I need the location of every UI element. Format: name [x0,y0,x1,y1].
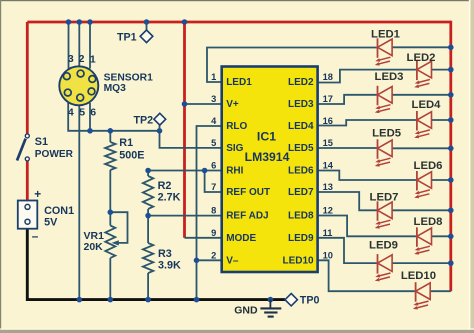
svg-text:14: 14 [323,161,334,171]
svg-text:SENSOR1: SENSOR1 [104,72,153,83]
wire pin14 to LED6 [318,171,417,181]
wire LED2 anode to +5V rail [432,69,451,71]
IC1 label [245,130,290,165]
svg-text:LED4: LED4 [412,99,442,111]
svg-text:15: 15 [323,138,333,148]
svg-text:5: 5 [211,138,216,148]
wire +5V top rail [27,21,451,24]
node R2 top on RHI line [145,168,151,174]
svg-text:LED3: LED3 [288,99,314,110]
svg-text:TP1: TP1 [117,31,137,43]
svg-text:6: 6 [90,106,96,118]
test point TP1 [117,22,153,43]
sensor SENSOR1 MQ3 [59,66,153,105]
svg-text:+: + [34,187,41,201]
LED LED1 [371,28,400,65]
svg-text:5: 5 [79,106,85,118]
wire pin17 to LED3 [318,95,378,104]
svg-text:LED1: LED1 [226,77,252,88]
pin 6 RHI [211,161,244,177]
wire pin18 to LED2 [318,70,417,83]
LED LED10 [401,270,436,310]
pin 1 LED1 [211,72,252,88]
wire LED7 anode to +5V rail [392,209,451,211]
svg-text:500E: 500E [119,150,144,162]
svg-text:LED8: LED8 [288,211,314,222]
svg-text:REF ADJ: REF ADJ [226,211,268,222]
wire sensor pin1 to +5V [89,22,91,69]
svg-text:LED9: LED9 [369,239,398,251]
node pin3 V+ [182,101,188,107]
wire MODE pin9 to V+ [185,237,222,239]
node LED anode on +5V rail [448,177,454,183]
svg-text:R2: R2 [158,180,172,192]
svg-text:MQ3: MQ3 [104,83,127,94]
resistor R1 500E [105,131,144,212]
svg-text:MODE: MODE [226,233,256,244]
node LED anode on +5V rail [448,45,454,51]
svg-text:LED2: LED2 [288,77,314,88]
svg-text:16: 16 [323,116,333,126]
wire pin10 to LED10 [318,260,416,291]
wire LED1 anode to +5V rail [392,46,451,48]
wire RLO pin4 to ground [197,126,222,300]
wire pin16 to LED4 [318,120,417,126]
wire V- pin2 to ground line [197,259,222,261]
wire pin11 to LED9 [318,238,378,263]
pin 14 LED6 [288,161,334,177]
svg-text:LM3914: LM3914 [245,150,290,164]
wire pin1 to LED1 [207,48,378,83]
svg-text:11: 11 [323,228,333,238]
wire REF OUT pin7 to RHI [205,171,222,193]
svg-text:TP0: TP0 [300,295,320,307]
resistor R3 3.9K [143,216,181,300]
svg-text:17: 17 [323,94,333,104]
svg-text:2: 2 [79,53,85,65]
node sensor pin1 on +5V [87,19,93,25]
svg-text:POWER: POWER [35,149,74,160]
node sensor pin2 on +5V [77,19,83,25]
pin 4 RLO [211,116,247,132]
svg-text:3: 3 [68,53,74,65]
ground [234,300,281,317]
node TP1 on +5V [144,19,150,25]
svg-text:CON1: CON1 [44,205,74,217]
svg-text:V–: V– [226,256,239,267]
pin 3 V+ [211,94,239,110]
pin 10 LED10 [282,251,332,267]
node TP2 on signal bus [157,128,163,134]
wire pin12 to LED8 [318,216,417,237]
pin 12 LED8 [288,206,333,222]
node V+ branch on +5V [182,19,188,25]
sensor pin numbers 4 5 6 [68,106,96,118]
svg-text:S1: S1 [35,136,48,148]
pin 15 LED5 [288,138,333,154]
svg-text:10: 10 [323,251,333,261]
svg-text:9: 9 [211,228,216,238]
connector CON1 5V [18,187,74,243]
wire R2 top to RHI pin6 [148,170,222,172]
svg-text:LED6: LED6 [288,166,314,177]
wire pin13 to LED7 [318,192,378,210]
wire LED9 anode to +5V rail [392,262,451,264]
svg-text:LED1: LED1 [371,28,400,40]
svg-text:LED9: LED9 [288,233,314,244]
svg-text:2: 2 [211,251,216,261]
svg-text:2.7K: 2.7K [158,191,181,203]
svg-text:LED6: LED6 [414,160,443,172]
LED LED8 [414,216,443,255]
wire switch to CON1 [26,161,29,201]
test point TP0 [285,294,319,307]
svg-text:LED5: LED5 [372,128,401,140]
potentiometer VR1 20K [84,212,128,299]
svg-text:TP2: TP2 [134,114,154,126]
wire LED10 anode to +5V rail [430,290,451,292]
pin 11 LED9 [288,228,332,244]
wire R2/R3 junction to REF ADJ pin8 [148,215,222,217]
LED LED4 [412,99,442,138]
node R1/VR1 junction [108,209,114,215]
node sensor pin5 on ground [77,297,83,303]
wire LED6 anode to +5V rail [432,179,451,181]
svg-text:SIG: SIG [226,143,243,154]
node LED anode on +5V rail [448,92,454,98]
LED LED3 [375,71,404,113]
pin 8 REF ADJ [211,206,268,222]
node LED anode on +5V rail [448,67,454,73]
wire sensor pin4 to signal bus [68,103,110,131]
LED LED6 [414,160,443,199]
node R3 on ground [145,297,151,303]
svg-text:18: 18 [323,72,333,82]
svg-text:8: 8 [211,206,216,216]
pin 7 REF OUT [211,182,270,198]
node LED anode on +5V rail [448,260,454,266]
wire +5V right rail [449,21,452,292]
node sensor pin6 on bus [87,128,93,134]
wire LED8 anode to +5V rail [432,235,451,237]
wire ground rail [27,228,285,300]
pin 16 LED4 [288,116,333,132]
node RHI/REF OUT junction [202,168,208,174]
svg-text:3.9K: 3.9K [158,260,181,272]
LED LED9 [369,239,398,281]
svg-text:6: 6 [211,161,216,171]
svg-text:3: 3 [211,94,216,104]
resistor R2 2.7K [143,171,181,216]
svg-text:V+: V+ [226,99,239,110]
svg-text:RLO: RLO [226,121,247,132]
wire battery positive to switch [26,22,29,134]
wire TP2 to pin5 SIG [160,131,222,148]
node R2/R3 junction [145,213,151,219]
svg-text:R1: R1 [119,137,133,149]
wire sensor pin6 to signal bus [89,103,91,131]
node sensor pin3 on +5V [66,19,72,25]
node LED anode on +5V rail [448,208,454,214]
wire LED3 anode to +5V rail [392,94,451,96]
node GND on ground rail [268,297,274,303]
wire sensor pin5 to ground [78,105,80,300]
svg-text:LED10: LED10 [282,256,314,267]
node VR1 on ground [108,297,114,303]
wire V+ branch to IC [183,22,186,238]
LED LED7 [370,191,399,228]
svg-text:LED2: LED2 [407,52,436,64]
svg-text:LED7: LED7 [370,191,399,203]
node LED anode on +5V rail [448,234,454,240]
svg-text:4: 4 [68,106,74,118]
svg-text:–: – [32,229,39,243]
svg-text:IC1: IC1 [257,130,276,144]
svg-text:1: 1 [211,72,216,82]
switch S1 POWER [17,134,74,161]
svg-text:LED7: LED7 [288,187,314,198]
wire LED5 anode to +5V rail [392,147,451,149]
svg-text:LED3: LED3 [375,71,404,83]
node RLO/V- on ground [194,297,200,303]
pin 18 LED2 [288,72,333,88]
svg-text:1: 1 [90,54,96,66]
pin 13 LED7 [288,182,333,198]
pin 17 LED3 [288,94,333,110]
svg-text:20K: 20K [84,241,104,253]
svg-text:LED5: LED5 [288,143,314,154]
sensor pin numbers 3 2 1 [68,53,96,66]
pin 9 MODE [211,228,256,244]
svg-text:5V: 5V [44,216,58,228]
node LED anode on +5V rail [448,117,454,123]
wire sensor pin3 to +5V [68,22,70,69]
wire LED4 anode to +5V rail [432,119,451,121]
svg-text:R3: R3 [158,248,172,260]
pin 2 V– [211,251,239,267]
svg-text:4: 4 [211,116,217,126]
svg-text:REF OUT: REF OUT [226,187,270,198]
op-amp U1: IC1 LM3914 body [222,67,318,273]
svg-text:GND: GND [234,304,258,316]
pin 5 SIG [211,138,244,154]
LED LED5 [372,128,401,167]
node R1 top on signal bus [108,128,114,134]
svg-text:LED8: LED8 [414,216,443,228]
svg-text:7: 7 [211,182,216,192]
wire V+ to pin3 [185,103,222,105]
svg-text:RHI: RHI [226,166,243,177]
wire sensor pin2 to +5V [78,22,80,67]
svg-text:LED4: LED4 [288,121,314,132]
svg-text:13: 13 [323,182,333,192]
node LED anode on +5V rail [448,146,454,152]
LED LED2 [407,52,436,88]
svg-text:12: 12 [323,206,333,216]
node V- on ground line [194,258,200,264]
wire signal bus to TP2 [110,130,159,132]
svg-text:LED10: LED10 [401,270,436,282]
wire pin15 to LED5 [318,147,378,149]
test point TP2 [134,113,166,131]
